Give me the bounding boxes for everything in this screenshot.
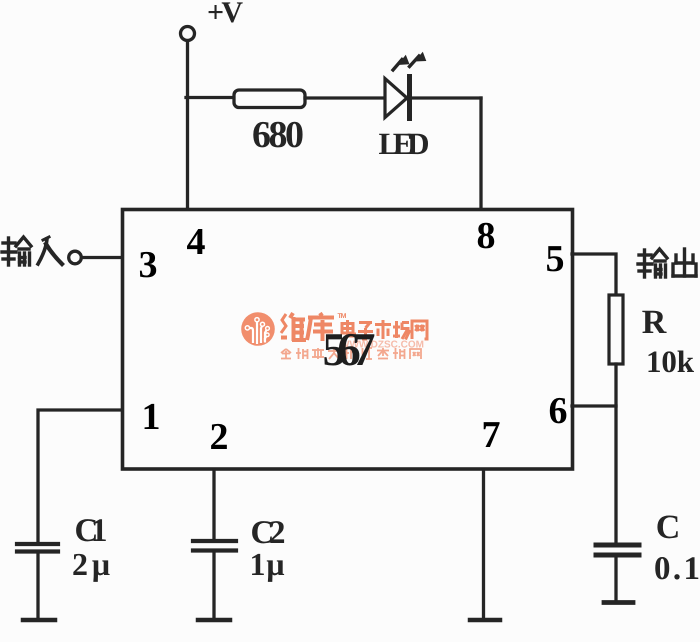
wire pin6	[572, 404, 616, 407]
input label 输入	[2, 237, 62, 265]
watermark slogan 全球最大的IC采购网站	[281, 348, 421, 359]
terminal +V	[181, 27, 195, 41]
svg-text:567: 567	[323, 324, 376, 376]
svg-text:680: 680	[252, 114, 304, 156]
svg-text:3: 3	[139, 244, 158, 286]
wire	[212, 553, 215, 619]
wire pin7 to ground	[482, 470, 485, 618]
svg-text:TM: TM	[338, 313, 347, 320]
wire	[614, 557, 617, 600]
watermark logo circle	[241, 312, 427, 359]
svg-text:5: 5	[546, 238, 565, 280]
ground	[470, 618, 500, 623]
wire	[186, 96, 234, 99]
svg-text:8: 8	[477, 215, 496, 257]
wire	[614, 364, 617, 542]
watermark text 维库	[281, 313, 334, 341]
wire	[479, 98, 482, 208]
svg-text:+V: +V	[207, 0, 243, 29]
watermark text 电子市场网	[342, 320, 427, 340]
svg-text:R: R	[642, 304, 667, 341]
ground	[23, 618, 55, 623]
svg-text:4: 4	[187, 221, 206, 263]
capacitor C2	[193, 541, 236, 551]
svg-text:10k: 10k	[646, 344, 695, 379]
op-amp U1 567 tone decoder body	[123, 210, 573, 470]
resistor R 10k	[609, 295, 623, 364]
wire	[186, 41, 189, 209]
LED D1	[379, 52, 430, 161]
svg-text:C1: C1	[75, 513, 108, 549]
svg-text:LED: LED	[379, 126, 430, 161]
resistor 680	[234, 90, 305, 108]
svg-text:7: 7	[482, 414, 501, 456]
svg-text:1: 1	[142, 396, 161, 438]
wire	[82, 256, 123, 259]
wire	[412, 96, 481, 99]
svg-text:6: 6	[549, 390, 568, 432]
wire pin5 out	[572, 254, 616, 295]
terminal input	[69, 251, 82, 264]
ground	[604, 600, 633, 605]
svg-text:C: C	[656, 509, 681, 546]
capacitor C	[596, 545, 639, 555]
ground	[198, 618, 230, 623]
wire	[305, 96, 385, 99]
wire pin2 to C2	[212, 470, 215, 539]
svg-text:2: 2	[210, 416, 229, 458]
output label 输出	[638, 249, 696, 277]
svg-text:0.1: 0.1	[654, 551, 700, 587]
capacitor C1	[17, 544, 58, 552]
svg-text:2μ: 2μ	[72, 546, 110, 582]
wire pin1 to C1	[38, 410, 122, 542]
svg-text:1μ: 1μ	[250, 546, 285, 582]
wire	[36, 554, 39, 619]
